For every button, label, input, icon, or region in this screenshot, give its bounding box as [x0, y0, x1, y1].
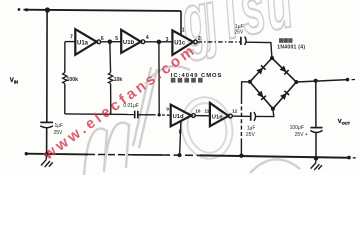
wire C4 to bridge bottom: [256, 109, 274, 117]
resistor R2 10k: [108, 73, 122, 84]
svg-text:25V: 25V: [234, 29, 244, 35]
wire bridge left node to ground rail: [239, 82, 250, 158]
svg-text:25V +: 25V +: [295, 132, 308, 138]
svg-text:10k: 10k: [114, 77, 123, 83]
capacitor C5 100uF 25V: [290, 125, 323, 138]
diode D1 top-left: [256, 65, 265, 74]
wire C2 to U1d: [138, 114, 153, 116]
svg-text:2: 2: [198, 36, 201, 42]
wire U1a input: [65, 41, 75, 43]
wire C5 to rail: [315, 132, 317, 159]
capacitor C3 1uF 25V: [234, 24, 246, 45]
svg-text:U1b: U1b: [123, 40, 135, 46]
svg-text:100k: 100k: [67, 77, 79, 83]
op-amp U1a inverter: [70, 29, 101, 55]
svg-text:1μF: 1μF: [247, 126, 256, 132]
gray watermark text upper-right: [173, 0, 298, 63]
node U1a output junction: [108, 40, 113, 45]
gray watermark shapes lower-left: [84, 66, 300, 175]
wire supply to U1c pin1: [180, 11, 182, 35]
diode D2 top-right: [280, 66, 289, 75]
wire feedback row: [65, 113, 134, 116]
svg-text:U1e: U1e: [212, 115, 223, 121]
node top-left junction: [45, 7, 50, 12]
svg-text:1μF: 1μF: [55, 123, 64, 129]
wire R1 to feedback row: [64, 84, 66, 114]
svg-text:1N4001 (4): 1N4001 (4): [277, 44, 305, 50]
wire U1b to U1c: [145, 41, 173, 43]
resistor R1 100k: [63, 73, 79, 84]
wire down to R2: [109, 42, 112, 73]
wire below C1: [46, 128, 48, 154]
diode D3 bottom-left: [257, 91, 266, 100]
wire C3 to bridge top: [247, 42, 272, 58]
wire bottom rail: [25, 152, 356, 159]
ground right: [311, 156, 322, 170]
wire U1e output: [232, 115, 250, 117]
wire output: [296, 80, 348, 82]
svg-text:1: 1: [182, 28, 185, 34]
wire U1c output dashed: [197, 41, 240, 43]
svg-text:12: 12: [232, 109, 238, 114]
svg-text:www.elecfans.com: www.elecfans.com: [40, 41, 200, 164]
svg-text:6: 6: [101, 36, 104, 42]
node feedback/U1b junction: [158, 113, 161, 116]
wire left VIN rail: [46, 10, 48, 122]
capacitor C4 1uF 25V: [246, 112, 256, 138]
svg-text:4: 4: [146, 35, 149, 41]
wire U1d pin8 ground: [178, 121, 182, 157]
svg-text:7: 7: [70, 34, 73, 40]
wire U1a to U1b: [101, 41, 122, 43]
wire down to R1: [64, 42, 66, 73]
svg-text:9: 9: [166, 107, 169, 112]
svg-text:5: 5: [115, 36, 118, 42]
input terminal dot: [18, 8, 21, 11]
svg-text:U1d: U1d: [173, 114, 184, 120]
wire to C5: [315, 81, 317, 128]
capacitor C2 0.01uF: [123, 103, 139, 118]
diode D4 bottom-right: [280, 91, 289, 100]
node diode labels: [277, 38, 305, 50]
op-amp U1d inverter: [166, 105, 195, 136]
svg-text:25V: 25V: [246, 132, 256, 138]
wire U1d to U1e: [195, 115, 210, 117]
op-amp U1b inverter: [121, 30, 145, 53]
diode bridge wires: [248, 56, 298, 111]
svg-text:10: 10: [195, 108, 201, 113]
wire top rail: [24, 10, 182, 11]
wire R2 to feedback row: [110, 84, 112, 115]
node U1b output junction: [157, 40, 162, 45]
svg-text:3: 3: [166, 37, 169, 43]
ground left: [41, 152, 53, 167]
capacitor C1 1uF 25V: [40, 122, 63, 135]
svg-text:VOUT: VOUT: [338, 119, 351, 125]
svg-text:VIN: VIN: [10, 78, 18, 84]
svg-text:U1a: U1a: [77, 40, 89, 46]
op-amp U1c inverter: [172, 28, 201, 55]
op-amp U1e inverter: [210, 103, 238, 126]
svg-text:100μF: 100μF: [290, 125, 304, 131]
IC annotation text: [171, 73, 223, 83]
wire junction down to feedback row: [158, 42, 160, 115]
